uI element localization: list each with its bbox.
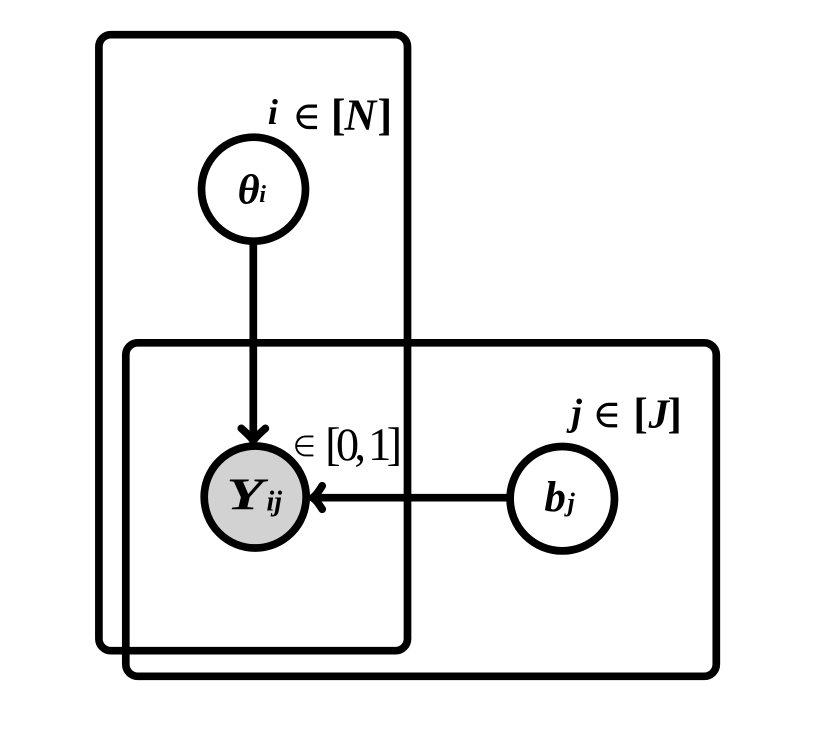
node b_j (510, 447, 614, 551)
svg-text:i: i (268, 92, 278, 132)
svg-text:[0, 1]: [0, 1] (325, 420, 402, 471)
wire b_j to Y_ij (313, 494, 562, 502)
svg-text:N: N (344, 91, 379, 140)
svg-text:ij: ij (267, 486, 283, 517)
arrowhead into Y_ij (left) (313, 486, 323, 509)
arrowhead into Y_ij (down) (241, 428, 265, 441)
svg-text:b: b (544, 474, 566, 521)
svg-text:[: [ (331, 91, 346, 140)
svg-text:j: j (566, 392, 582, 434)
element-of symbol (regular) for [0,1] (296, 436, 313, 455)
plate j [J] (126, 343, 717, 677)
svg-text:[: [ (633, 390, 647, 437)
node theta_i (202, 137, 306, 241)
svg-text:θ: θ (238, 167, 260, 214)
svg-text:i: i (259, 182, 266, 208)
svg-text:]: ] (668, 390, 682, 437)
wire theta_i to Y_ij (249, 189, 257, 441)
element-of symbol (bold) (598, 404, 617, 425)
node Y_ij (observed, shaded) (204, 446, 306, 548)
plate i [N] (99, 35, 408, 651)
svg-text:Y: Y (227, 469, 269, 520)
element-of symbol (bold) (298, 106, 317, 127)
svg-text:]: ] (378, 91, 393, 140)
